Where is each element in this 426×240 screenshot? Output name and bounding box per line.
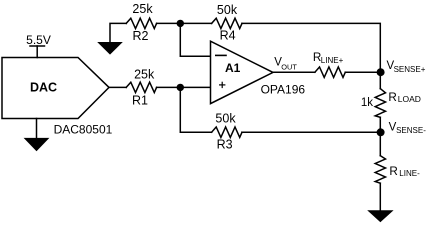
svg-text:OUT: OUT: [281, 63, 297, 72]
op-amp A1: [211, 41, 274, 103]
node Vsense+: [377, 68, 385, 76]
wire Vsense- to Rline-: [379, 132, 381, 155]
ground (top-left, for R2): [97, 42, 123, 55]
svg-text:50k: 50k: [217, 3, 238, 17]
resistor R2: [126, 18, 156, 28]
label R4: [220, 28, 236, 42]
resistor Rload (vertical): [375, 89, 385, 118]
resistor R3: [212, 127, 242, 137]
label 25k (R1 value): [134, 67, 155, 81]
DAC ground stub: [36, 119, 38, 138]
svg-text:25k: 25k: [134, 67, 155, 81]
svg-text:A1: A1: [225, 61, 241, 75]
label R2: [133, 29, 149, 43]
svg-text:LOAD: LOAD: [398, 94, 421, 104]
svg-text:R: R: [389, 165, 397, 178]
label 50k (R4 value): [217, 3, 238, 17]
node Vsense-: [377, 128, 385, 136]
svg-text:SENSE-: SENSE-: [396, 126, 426, 135]
wire R3 to Vsense- node: [242, 131, 380, 133]
resistor R1: [126, 82, 156, 92]
DAC block (DAC80501): [2, 58, 109, 119]
svg-text:LINE+: LINE+: [321, 56, 344, 65]
svg-text:50k: 50k: [215, 111, 236, 125]
ground (DAC): [24, 138, 50, 151]
svg-text:R3: R3: [217, 137, 233, 151]
svg-text:5.5V: 5.5V: [26, 33, 51, 47]
label 5.5V: [26, 33, 51, 47]
resistor Rline+: [315, 67, 345, 77]
op-amp minus sign: [216, 54, 226, 56]
wire DAC output to R1: [109, 86, 126, 88]
label Vsense+: [387, 60, 426, 74]
resistor Rline- (vertical): [375, 156, 385, 184]
label Rline+: [313, 51, 344, 65]
label R3: [217, 137, 233, 151]
svg-text:SENSE+: SENSE+: [394, 65, 426, 74]
wire Rline+ to Vsense+ node: [345, 71, 380, 73]
label Rline-: [389, 165, 420, 178]
node B (non-inverting input node): [177, 84, 184, 91]
label Rload: [388, 91, 421, 104]
wire Rload to Vsense- node: [379, 117, 381, 132]
svg-text:LINE-: LINE-: [399, 169, 420, 178]
wire R2 to node A: [157, 22, 212, 24]
wire op-amp output to Rline+: [272, 71, 315, 73]
label R1: [132, 94, 148, 108]
op-amp plus sign: [220, 84, 225, 86]
wire R1 to op-amp + input: [157, 86, 211, 88]
5.5V supply bar: [30, 45, 45, 47]
label A1: [225, 61, 241, 75]
label OPA196: [261, 83, 306, 97]
label Vsense-: [389, 122, 426, 136]
svg-text:R2: R2: [133, 29, 149, 43]
svg-text:DAC: DAC: [30, 80, 57, 94]
svg-text:R: R: [388, 91, 396, 104]
wire node A down to op-amp inverting input: [180, 23, 210, 56]
label DAC: [30, 80, 57, 94]
wire Vsense+ to Rload: [379, 72, 381, 88]
wire Rline- to ground: [379, 183, 381, 210]
wire node B down to R3 row: [180, 87, 211, 132]
svg-text:25k: 25k: [132, 2, 153, 16]
svg-text:R1: R1: [132, 94, 148, 108]
resistor R4: [212, 18, 242, 28]
label DAC80501: [54, 123, 113, 137]
node A (inverting-input summing node): [177, 20, 184, 27]
wire top row: ground stub to R2: [110, 23, 126, 42]
ground (bottom right): [367, 210, 393, 222]
label 1k: [361, 97, 373, 109]
label 50k (R3 value): [215, 111, 236, 125]
svg-text:DAC80501: DAC80501: [54, 123, 113, 137]
svg-text:1k: 1k: [361, 97, 373, 109]
label Vout: [274, 57, 297, 72]
svg-text:OPA196: OPA196: [261, 83, 306, 97]
wire R4 to Vsense+ column: [242, 23, 380, 72]
label 25k (R2 value): [132, 2, 153, 16]
svg-text:R4: R4: [220, 28, 236, 42]
